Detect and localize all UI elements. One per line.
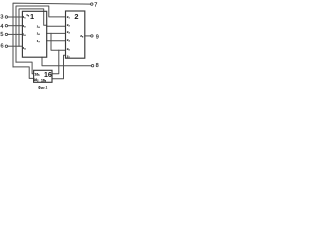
wire block16 right pin 2 to block2 pin 2_7: [52, 55, 66, 79]
svg-text:14: 14: [23, 46, 27, 51]
wire net to terminal 7 (top long wire): [13, 3, 91, 67]
svg-text:9: 9: [96, 34, 99, 40]
terminal circle 9: [91, 35, 93, 37]
wire terminal 6 to block 1: [8, 45, 23, 47]
block 16: [34, 70, 52, 82]
svg-text:17: 17: [37, 39, 41, 44]
wire riser to block16 right pin 1: [52, 50, 59, 74]
svg-text:25: 25: [67, 47, 71, 52]
terminal circle 7: [91, 3, 93, 5]
svg-text:7: 7: [94, 3, 97, 9]
wire block1 out2 to block2: [47, 32, 66, 34]
svg-text:13: 13: [23, 33, 27, 38]
wire block1 out1 to block2: [47, 25, 66, 27]
svg-text:1: 1: [30, 12, 34, 21]
terminal circle 6: [5, 45, 7, 47]
wire top 2 to block 2 pin 2_1: [16, 6, 66, 62]
wire dogleg from out2 to block2 pin 2_5: [51, 33, 66, 50]
svg-text:15: 15: [37, 25, 41, 30]
svg-text:8: 8: [96, 63, 99, 69]
svg-text:162: 162: [33, 78, 39, 83]
svg-text:4: 4: [0, 24, 3, 30]
svg-text:12: 12: [23, 24, 27, 29]
svg-text:22: 22: [67, 23, 71, 28]
terminal circle 8: [91, 65, 93, 67]
block 1: [22, 11, 46, 57]
terminal circle 5: [5, 33, 7, 35]
svg-text:163: 163: [41, 78, 47, 83]
svg-text:Фиг.1: Фиг.1: [38, 85, 48, 90]
wire terminal 3 to block 1: [8, 16, 23, 18]
wire terminal 4 to block 1: [8, 25, 23, 27]
svg-text:5: 5: [0, 32, 3, 38]
svg-text:23: 23: [67, 30, 71, 35]
svg-text:28: 28: [80, 34, 84, 39]
wire block2 right pin to terminal 9: [85, 35, 91, 37]
svg-text:161: 161: [35, 72, 41, 77]
svg-text:2: 2: [74, 12, 78, 21]
wire top 3 to block 1 top pin: [19, 9, 47, 46]
svg-text:21: 21: [67, 15, 71, 20]
svg-text:6: 6: [0, 44, 3, 50]
svg-text:3: 3: [0, 15, 3, 21]
wire terminal 5 to block 1: [8, 33, 23, 35]
wire left vertical 1 to block 16 input 2: [13, 67, 34, 79]
wire left vertical 2 to block 16 input 1: [16, 62, 34, 74]
terminal circle 4: [5, 25, 7, 27]
terminal circle 3: [5, 16, 7, 18]
wire block1 bottom pin to terminal 8: [42, 57, 91, 65]
svg-text:16: 16: [44, 72, 52, 79]
svg-text:24: 24: [67, 38, 71, 43]
wire block1 out3 to block2: [47, 40, 66, 42]
block 2: [66, 11, 85, 58]
svg-text:16: 16: [37, 32, 41, 37]
